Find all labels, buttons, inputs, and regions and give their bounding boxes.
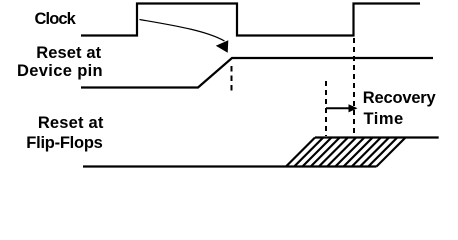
label Reset at (device) [36,44,101,63]
reset at flip-flops high wire [315,136,439,138]
dashed line at device-pin reset edge [231,66,233,92]
curved annotation arrow from clock edge to reset edge [140,20,229,53]
label Flip-Flops [26,134,102,153]
dashed line at clock rising edge [353,38,355,136]
reset at flip-flops low wire [83,165,377,167]
reset at device pin waveform [81,58,433,88]
label Reset at (flip-flops) [38,114,104,133]
clock waveform [81,4,420,36]
dashed line recovery start [325,81,327,136]
label Recovery [363,89,436,108]
label Time [364,110,404,129]
label Clock [35,10,75,29]
recovery time arrow [326,104,358,112]
hatched uncertainty parallelogram [286,138,406,167]
label Device pin [17,62,103,81]
